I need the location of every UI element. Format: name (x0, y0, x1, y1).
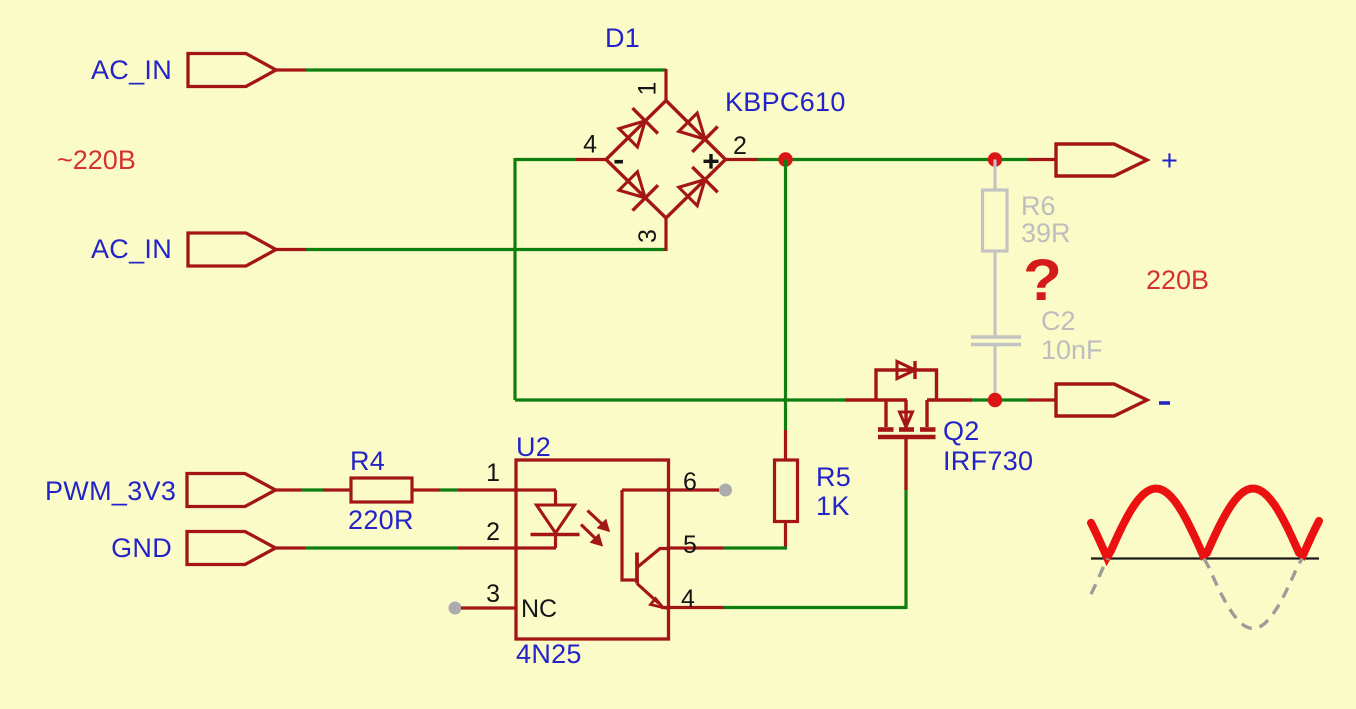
wire minus rail right (972, 398, 1028, 401)
wire pin4 to gate horizontal (724, 606, 907, 609)
wire R4 to pin1 (440, 488, 459, 491)
Q2 body diode loop (876, 370, 937, 400)
wire plus rail (758, 158, 1028, 161)
wire R5 to pin5 (724, 546, 788, 549)
svg-text:4: 4 (583, 131, 597, 159)
svg-text:10nF: 10nF (1041, 335, 1103, 365)
svg-text:220B: 220B (1146, 265, 1209, 295)
svg-text:NC: NC (521, 595, 557, 623)
port AC_IN top symbol (188, 54, 276, 87)
junction node R5 tap (778, 152, 792, 166)
Q2 right contact (925, 400, 928, 427)
resistor R4 right lead (412, 488, 440, 491)
port minus symbol (1056, 384, 1147, 416)
port plus symbol (1056, 144, 1147, 176)
svg-text:R6: R6 (1021, 191, 1056, 221)
pin lead from GND port (276, 546, 306, 549)
D1 pin 1 lead (664, 69, 667, 101)
resistor R5 top lead (784, 430, 787, 460)
D1 diode top-left cathode bar (633, 108, 658, 133)
capacitor C2 bottom plate (ghost) (971, 343, 1021, 347)
wire GND to pin2 (305, 546, 458, 549)
D1 diode bottom-right cathode bar (692, 167, 717, 192)
svg-text:5: 5 (683, 531, 697, 559)
Q2 body diode triangle (897, 362, 915, 379)
pin lead from AC_IN top port (276, 68, 306, 71)
Q2 left contact (884, 400, 887, 427)
Q2 gate lead (904, 439, 907, 490)
pin lead to minus port (1028, 398, 1056, 401)
Q2 source rail (927, 398, 972, 401)
svg-text:6: 6 (683, 468, 697, 496)
optocoupler U2 box (516, 460, 669, 639)
U2 LED cathode bar (531, 533, 580, 536)
svg-text:1K: 1K (816, 491, 850, 521)
U2 LED cathode lead (554, 536, 557, 548)
svg-text:2: 2 (486, 518, 500, 546)
D1 diode bottom-left cathode bar (633, 185, 659, 210)
pin lead from AC_IN bottom port (276, 248, 306, 251)
wire pin4 to left vertical (515, 158, 576, 161)
resistor R5 body (775, 460, 798, 522)
D1 diode top-right cathode bar (692, 127, 717, 152)
svg-text:Q2: Q2 (943, 416, 980, 446)
port GND symbol (187, 532, 276, 565)
U2 pin 2 lead (458, 546, 556, 549)
wire AC bottom (306, 248, 666, 251)
pin lead from PWM port (276, 488, 303, 491)
waveform axis (1091, 557, 1319, 559)
svg-text:4: 4 (681, 585, 695, 613)
svg-text:R5: R5 (816, 462, 851, 492)
wire AC top (306, 68, 666, 71)
U2 pin 6 lead (622, 488, 719, 491)
capacitor C2 top plate (ghost) (971, 335, 1021, 339)
U2 pin 3 open dot (449, 602, 462, 615)
U2 emitter arrowhead (651, 599, 664, 608)
svg-text:1: 1 (634, 82, 662, 96)
waveform rectified sine (red) (1091, 489, 1319, 558)
waveform negative half (grey dashed) left (1091, 559, 1108, 595)
port PWM_3V3 symbol (187, 474, 276, 507)
svg-text:IRF730: IRF730 (943, 446, 1033, 476)
svg-text:4N25: 4N25 (516, 639, 582, 669)
D1 minus mark (615, 160, 624, 164)
wire gate vertical (904, 490, 907, 609)
D1 pin 2 lead (726, 158, 759, 161)
U2 transistor emitter (637, 584, 659, 604)
Q2 channel bars (878, 427, 894, 432)
svg-text:1: 1 (486, 459, 500, 487)
U2 pin 3 lead (461, 606, 516, 609)
svg-text:PWM_3V3: PWM_3V3 (45, 476, 176, 506)
svg-text:39R: 39R (1021, 218, 1071, 248)
Q2 drain rail (845, 398, 907, 401)
svg-text:R4: R4 (350, 446, 385, 476)
capacitor C2 bottom lead (ghost) (993, 346, 996, 400)
port minus label (1159, 401, 1170, 405)
resistor R6 top lead (ghost) (993, 160, 996, 191)
resistor R4 body (351, 478, 412, 502)
Q2 body diode cathode bar (913, 361, 916, 379)
svg-text:U2: U2 (516, 432, 551, 462)
svg-text:~220B: ~220B (57, 145, 136, 175)
svg-text:AC_IN: AC_IN (91, 234, 172, 264)
D1 diode top-right triangle (679, 113, 705, 139)
wire left vertical down (513, 158, 516, 400)
svg-text:3: 3 (634, 229, 662, 243)
resistor R4 left lead (323, 488, 351, 491)
U2 transistor collector (637, 549, 669, 568)
Q2 gate line (878, 435, 936, 440)
svg-text:+: + (1161, 145, 1178, 177)
D1 pin 4 lead (576, 158, 607, 161)
U2 pin 6 open dot (719, 484, 732, 497)
D1 diode bottom-left triangle (619, 172, 645, 198)
bridge rectifier D1 diamond body (606, 101, 726, 219)
svg-text:AC_IN: AC_IN (91, 55, 172, 85)
resistor R6 body (ghost) (983, 190, 1008, 251)
svg-text:D1: D1 (605, 23, 640, 53)
port AC_IN bottom symbol (188, 233, 276, 266)
D1 pin 3 lead (664, 218, 667, 252)
U2 pin 5 lead (669, 546, 724, 549)
waveform negative half (grey dashed) center (1204, 559, 1302, 629)
U2 pin 4 lead (661, 606, 724, 609)
wire R5 top vertical (784, 160, 787, 431)
junction node C2 bottom (988, 393, 1002, 407)
U2 light arrow 1 (588, 511, 604, 526)
resistor R6 bottom lead (ghost) (993, 251, 996, 336)
U2 light arrow 2 (581, 525, 596, 540)
svg-text:KBPC610: KBPC610 (725, 87, 846, 117)
U2 LED triangle (537, 505, 575, 533)
resistor R5 bottom lead (784, 522, 787, 550)
svg-text:2: 2 (733, 132, 747, 160)
svg-text:3: 3 (486, 580, 500, 608)
pin lead to plus port (1028, 158, 1056, 161)
U2 pin 1 lead (458, 488, 556, 491)
U2 LED anode lead (554, 490, 557, 506)
wire minus rail left (515, 398, 845, 401)
D1 diode bottom-right triangle (679, 180, 705, 206)
svg-text:?: ? (1023, 248, 1062, 313)
D1 plus mark (704, 160, 719, 163)
svg-text:GND: GND (111, 533, 172, 563)
U2 transistor base bar (635, 553, 639, 584)
Q2 bulk arrow (900, 412, 913, 427)
junction node R6 tap (988, 152, 1002, 166)
Q2 center contact (904, 400, 907, 427)
U2 base vertical (622, 490, 637, 580)
svg-text:220R: 220R (348, 505, 414, 535)
D1 diode top-left triangle (619, 121, 645, 147)
wire to R4 (302, 488, 323, 491)
